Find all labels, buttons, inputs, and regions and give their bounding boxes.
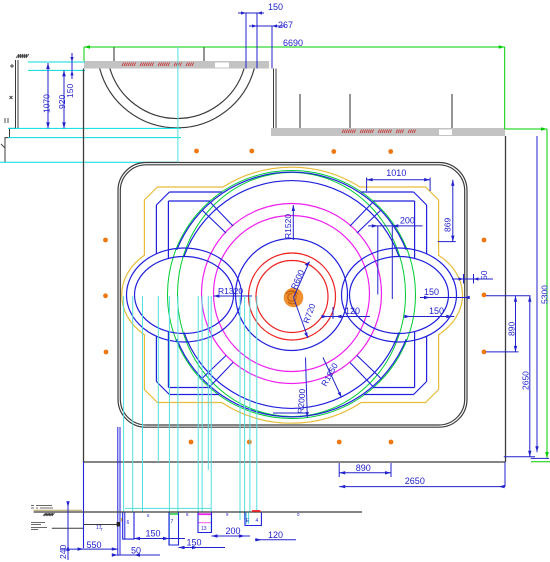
section lower line right part (83, 524, 120, 526)
section hatch row2 (43, 513, 55, 516)
blue outer rect with chamfers (segments) (156, 192, 426, 395)
right lobe outer ellipse (342, 248, 457, 342)
dim 2650 bottom (339, 462, 505, 487)
svg-text:5300: 5300 (540, 285, 550, 304)
red hatch text on bar 2 (342, 130, 416, 134)
section lower line left part (52, 527, 83, 529)
wall tick above bar1 a (113, 47, 115, 61)
semicircle niche inner arc (110, 69, 244, 119)
section box 3 (198, 513, 212, 533)
svg-text:150: 150 (268, 2, 283, 12)
radial dim R600 (294, 262, 310, 298)
svg-text:200: 200 (400, 216, 415, 226)
dim 50 section (118, 554, 160, 556)
dim 550 (60, 548, 118, 550)
cyan part of box4 (246, 513, 248, 525)
svg-text:120: 120 (345, 306, 360, 316)
green construction circle R1850 (178, 173, 406, 417)
magenta tick on box3 (199, 513, 212, 515)
hatch marks top-left (16, 54, 29, 58)
dim 869 right rotated (438, 180, 456, 242)
top bridge inner arc R1850 (184, 181, 399, 257)
orange spotlights left column (103, 238, 108, 355)
dim 2650 right side vertical (504, 296, 535, 457)
svg-text:240: 240 (58, 545, 68, 559)
svg-text:13: 13 (201, 526, 207, 532)
green tick on box2 (170, 513, 178, 515)
svg-text:150: 150 (429, 306, 444, 316)
svg-text:150: 150 (65, 84, 75, 98)
svg-text:R1320: R1320 (218, 286, 243, 296)
svg-text:150: 150 (146, 529, 161, 539)
bottom bridge inner arc R1850 (184, 332, 399, 408)
corner connector diagonals (202, 202, 381, 387)
dim 5300 far right (536, 136, 538, 452)
section box 4 (245, 513, 261, 526)
black blob at wall base (117, 522, 120, 526)
room right wall (505, 136, 507, 462)
section box 1 (123, 513, 134, 540)
gray bar 2 (upper right wall) (271, 128, 505, 136)
ceiling frame inner rounded rect (120, 165, 464, 425)
svg-text:4: 4 (256, 518, 259, 524)
svg-text:2650: 2650 (521, 371, 531, 390)
yellow moulding outline with lobes (122, 167, 463, 423)
svg-text:2650: 2650 (405, 476, 425, 486)
red tick on box4 (252, 510, 260, 512)
dim 150 b section (179, 547, 226, 549)
svg-text:150: 150 (187, 538, 202, 548)
room left wall (83, 69, 85, 463)
svg-text:890: 890 (507, 322, 517, 336)
red circle outer R720 (249, 253, 336, 340)
orange spotlights right column (482, 238, 487, 355)
radial dim R1850 (323, 358, 342, 398)
dim 120 section (255, 539, 296, 541)
svg-text:267: 267 (278, 20, 293, 30)
svg-text:890: 890 (356, 463, 371, 473)
dim 150 a section (134, 538, 185, 540)
magenta circle outer R1520 (202, 204, 382, 384)
central blue circle (236, 239, 348, 351)
svg-text:R1520: R1520 (283, 214, 293, 239)
dim 150 top (238, 13, 264, 69)
semicircle niche outer arc (100, 69, 255, 128)
tan line above section line (34, 509, 82, 511)
svg-text:150: 150 (424, 287, 439, 297)
svg-text:6690: 6690 (283, 38, 303, 48)
blue projection pair of frame edge (118, 427, 120, 556)
wall tick above bar1 b (203, 47, 205, 61)
red circle inner R600 (256, 261, 328, 333)
green bottom-right tick (531, 461, 550, 463)
left lobe inner ellipse (135, 257, 234, 334)
cyan projection verticals (124, 47, 257, 545)
green boundary right (505, 47, 547, 458)
dim 890 right side vertical (486, 296, 531, 352)
orange spotlights top row (194, 149, 393, 154)
svg-text:200: 200 (226, 526, 241, 536)
dim 6690 green line (84, 46, 505, 48)
green construction circle R2000 (168, 171, 416, 419)
dim 267 top (249, 26, 285, 69)
orange centre ball (284, 288, 304, 308)
radial dim R1320 (214, 295, 253, 297)
svg-text:6: 6 (127, 520, 130, 526)
bottom bridge outer arc R2000 (177, 339, 406, 417)
dim 920 (63, 70, 65, 128)
dim 200 (368, 226, 423, 299)
white box on bar 1 (215, 63, 229, 68)
dim 1010 top right (367, 178, 431, 192)
dim 240 vertical (67, 502, 69, 560)
top bridge outer arc R2000 (177, 172, 406, 250)
magenta line in box3 (199, 522, 212, 524)
radial dim R720 (294, 298, 309, 339)
dim 120 centre right (322, 307, 370, 319)
section hatch row3 (31, 523, 45, 525)
svg-text:7: 7 (171, 519, 174, 525)
svg-text:R2000: R2000 (296, 388, 308, 414)
dim 200 section (212, 535, 251, 537)
right lobe inner ellipse (350, 257, 449, 334)
dim 150 B right (405, 316, 454, 318)
dim 150 A right (420, 297, 469, 299)
white box on bar 2 (439, 130, 452, 136)
svg-text:869: 869 (443, 218, 453, 232)
orange spotlights bottom row (189, 440, 394, 445)
yellow tick in section (121, 518, 123, 522)
green ext tick left (83, 47, 85, 61)
dim 50 right outside (452, 274, 493, 284)
tiny digits on section line (147, 512, 300, 518)
svg-text:1010: 1010 (386, 168, 406, 178)
gray bar 1 (top wall) (84, 61, 269, 69)
dim 890 bottom (339, 463, 391, 477)
section hatch row4 (31, 528, 47, 530)
svg-text:1070: 1070 (42, 94, 52, 113)
section main ceiling line (34, 511, 362, 513)
svg-text:120: 120 (268, 530, 283, 540)
blue tick bottom right (531, 457, 549, 459)
tick marks on profile (10, 64, 14, 68)
wall ticks above bar2 (300, 94, 452, 128)
left wall section profile (5, 60, 18, 162)
dim 1070 (47, 63, 49, 128)
magenta circle inner R1320 (214, 216, 370, 372)
radial dim R2000 (273, 358, 307, 418)
blue projection of left wall (83, 462, 85, 548)
cyan section lines top-left (0, 62, 181, 162)
cyan horizontal above section line (125, 507, 211, 509)
left lobe outer ellipse (127, 248, 242, 342)
svg-text:50: 50 (479, 270, 489, 280)
red hatch text on bar 1 (122, 63, 194, 67)
svg-text:550: 550 (87, 540, 102, 550)
room bottom wall (84, 461, 506, 463)
dim 150 left (71, 53, 73, 79)
ceiling frame outer rounded rect (118, 163, 467, 428)
radial dim R1520 (292, 205, 294, 240)
section box 2 (169, 513, 179, 546)
wall step between bars (274, 69, 277, 129)
svg-text:50: 50 (131, 546, 141, 556)
blue inner square (segments) (168, 201, 414, 388)
section hatch text row1 (31, 506, 53, 509)
